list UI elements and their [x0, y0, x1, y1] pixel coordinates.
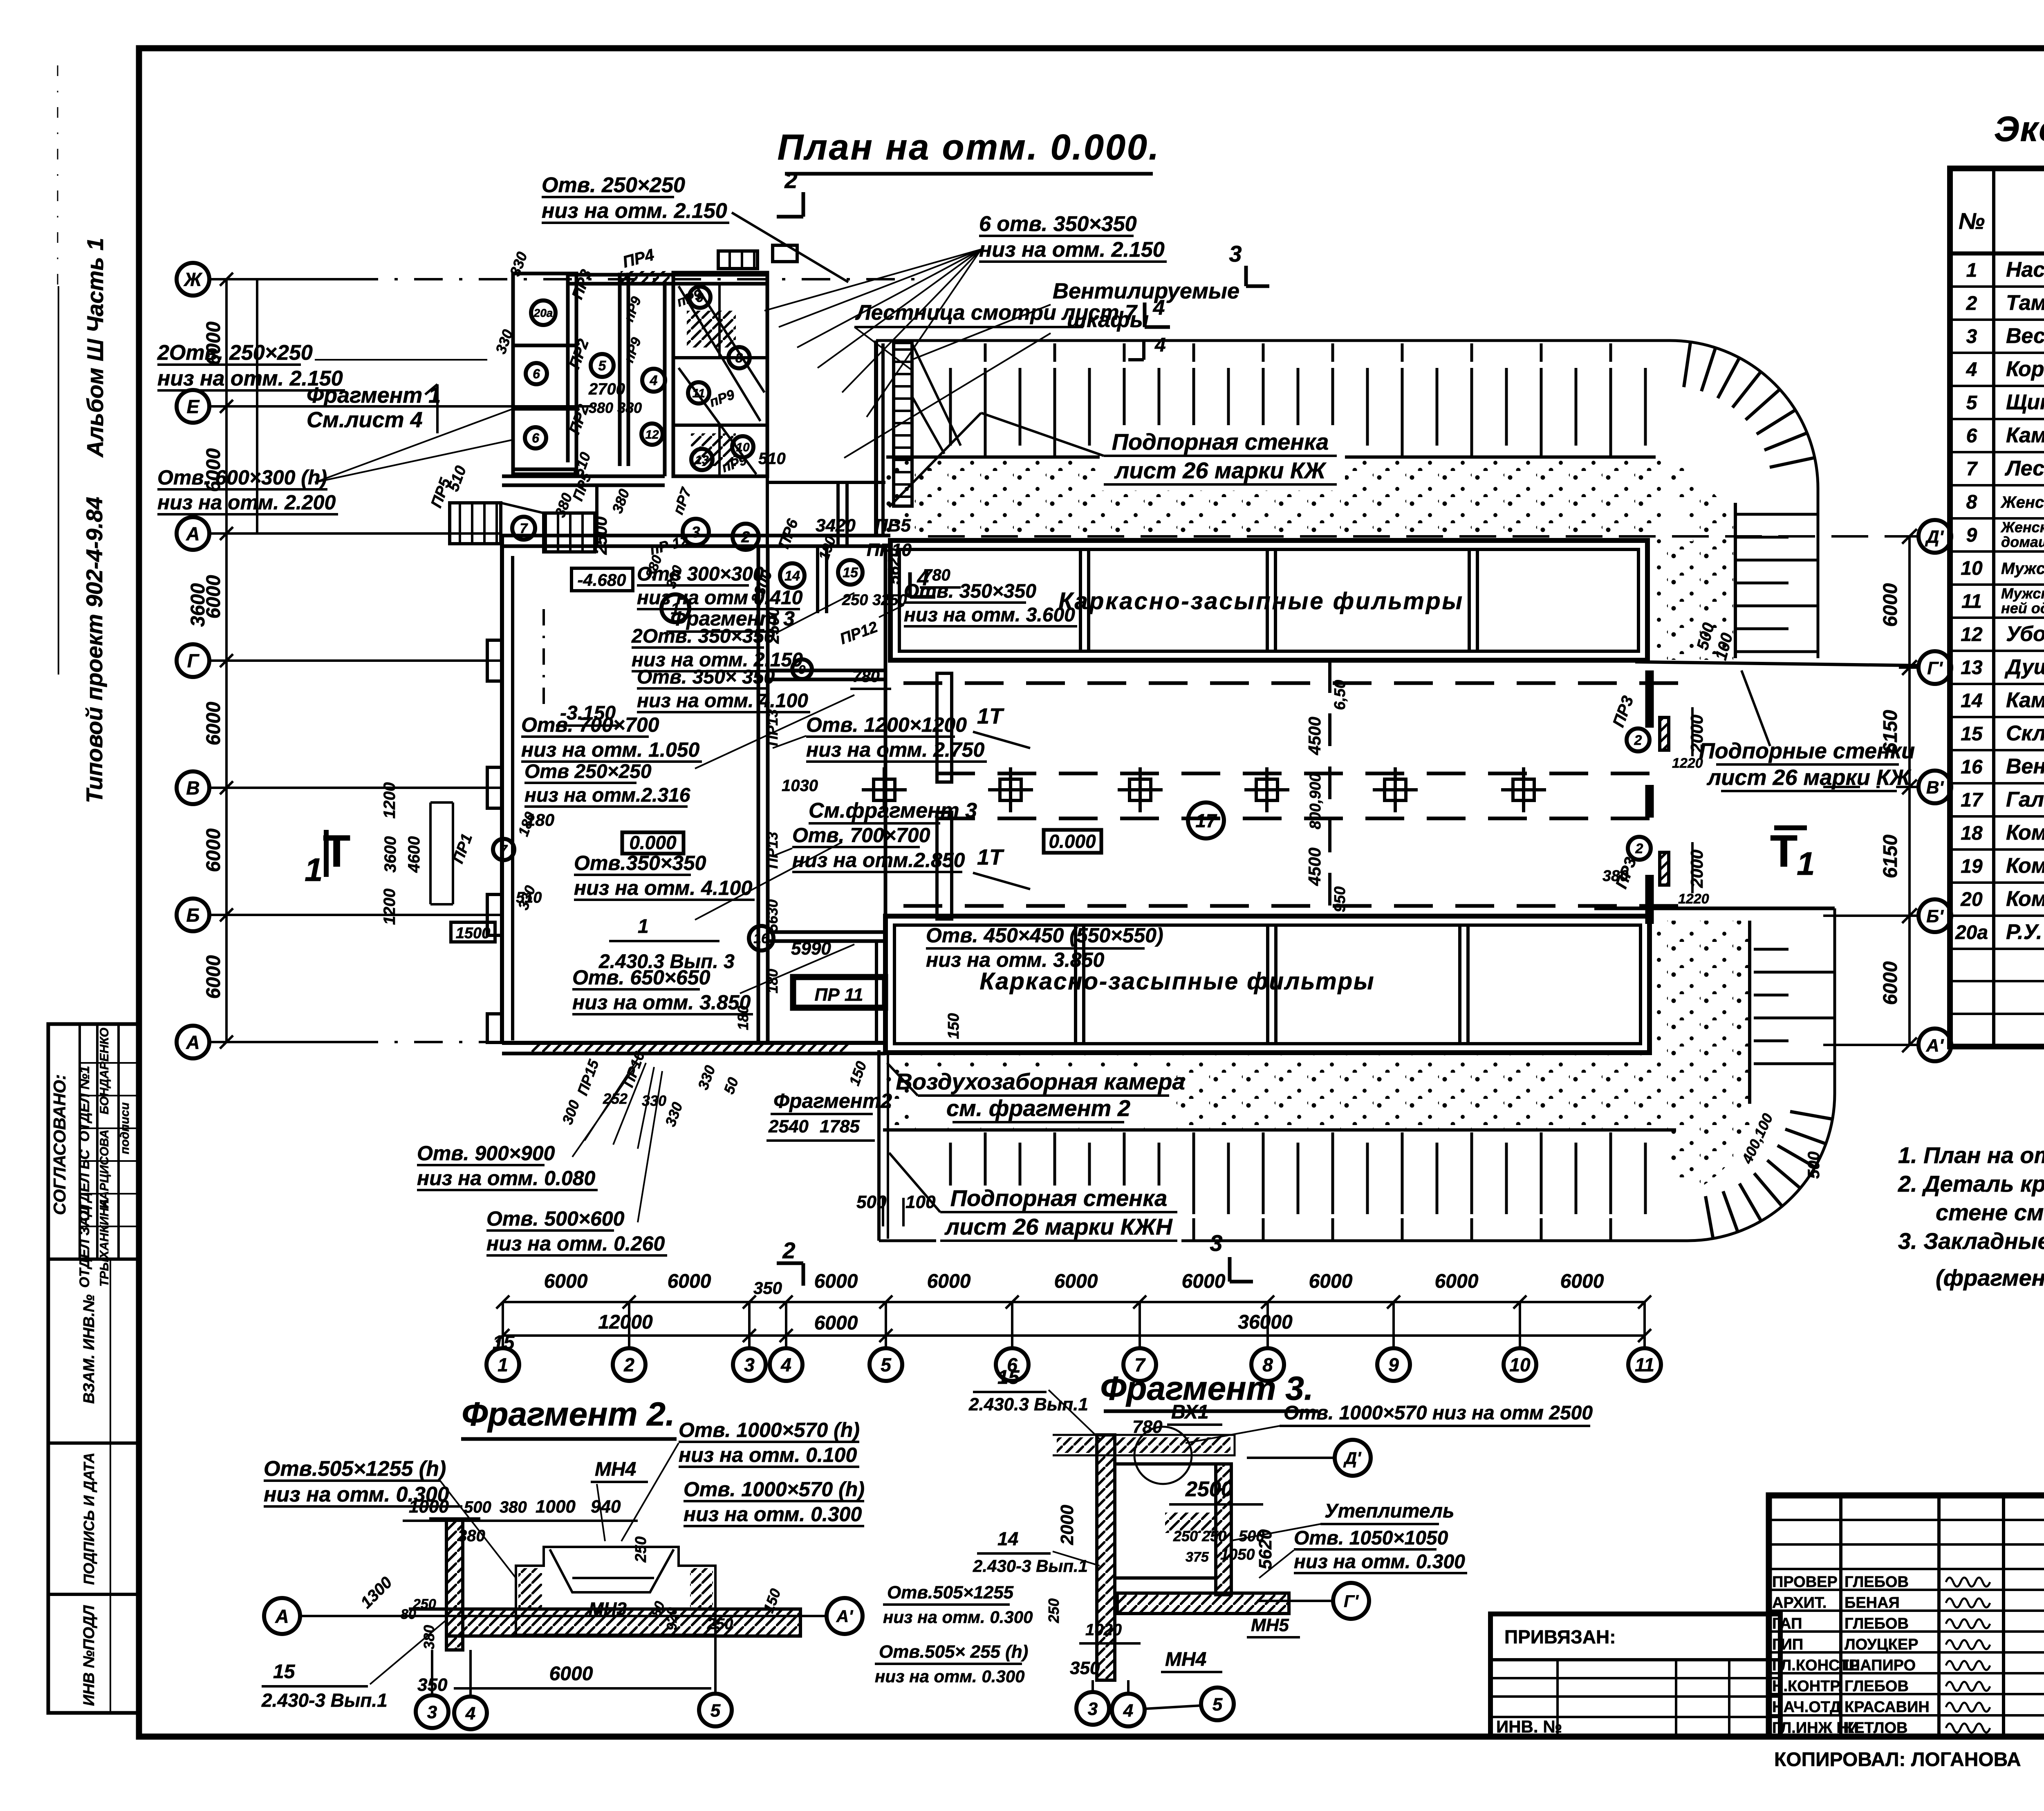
fragment 2 wall	[446, 1519, 463, 1650]
svg-text:780: 780	[852, 668, 880, 686]
svg-text:Воздухозаборная камера: Воздухозаборная камера	[896, 1069, 1185, 1094]
svg-text:низ на отм.2.316: низ на отм.2.316	[524, 784, 690, 806]
fragment 3 structure	[1097, 1435, 1115, 1680]
svg-text:Экспликация помещений.: Экспликация помещений.	[1994, 110, 2044, 149]
svg-text:15: 15	[493, 1332, 515, 1354]
svg-text:Комната дежурного: Комната дежурного	[2006, 854, 2044, 878]
svg-text:20а: 20а	[533, 307, 553, 319]
svg-text:6000: 6000	[814, 1271, 858, 1292]
label Воздухозаборная камера	[912, 1069, 1173, 1126]
привязан block	[1490, 1614, 1780, 1737]
building west wall	[500, 536, 504, 1043]
table row 10	[1950, 583, 2044, 586]
svg-text:2: 2	[782, 1237, 795, 1263]
svg-text:6150: 6150	[1880, 834, 1901, 878]
svg-text:2.430-3 Вып.1: 2.430-3 Вып.1	[261, 1690, 388, 1711]
svg-text:В': В'	[1926, 778, 1944, 798]
svg-text:940: 940	[591, 1497, 621, 1517]
top band right side ticks	[1735, 503, 1818, 658]
right dim chain	[1908, 536, 1911, 1045]
fragment 3 axis circles	[1335, 1440, 1371, 1476]
table row 8	[1950, 517, 2044, 520]
svg-text:15: 15	[1961, 723, 1983, 745]
table row 2	[1950, 318, 2044, 321]
svg-text:МН4: МН4	[595, 1459, 636, 1480]
title block left grid	[1839, 1495, 1842, 1737]
svg-text:7: 7	[1966, 458, 1978, 480]
svg-text:ПР13: ПР13	[764, 709, 781, 746]
svg-text:КРАСАВИН: КРАСАВИН	[1845, 1699, 1930, 1716]
svg-text:НАРЦИСОВА: НАРЦИСОВА	[98, 1130, 111, 1209]
svg-text:СОГЛАСОВАНО:: СОГЛАСОВАНО:	[50, 1074, 69, 1215]
svg-text:низ на отм. 0.260: низ на отм. 0.260	[486, 1232, 665, 1255]
bottom dim line 1	[503, 1301, 1645, 1303]
svg-text:БОНДАРЕНКО: БОНДАРЕНКО	[98, 1028, 111, 1114]
svg-text:низ на отм. 0.300: низ на отм. 0.300	[264, 1483, 449, 1506]
table row 4	[1950, 385, 2044, 387]
svg-text:Р.У.: Р.У.	[2006, 920, 2042, 944]
svg-text:ВХ1: ВХ1	[1171, 1401, 1209, 1423]
svg-text:подписи: подписи	[118, 1103, 132, 1154]
svg-text:2: 2	[1966, 293, 1977, 314]
svg-text:2000: 2000	[1687, 849, 1706, 888]
table row 13	[1950, 683, 2044, 685]
NW rooms block west rooms (20a,6,6)	[513, 273, 576, 474]
svg-text:5: 5	[1213, 1694, 1223, 1715]
svg-text:Мужской гардероб уличной и дом: Мужской гардероб уличной и домаш-	[2001, 585, 2044, 602]
svg-text:Отв. 350× 350: Отв. 350× 350	[637, 666, 775, 688]
svg-text:Отв. 650×650: Отв. 650×650	[572, 966, 710, 989]
svg-text:1785: 1785	[820, 1116, 860, 1136]
bottom dim line 2	[503, 1334, 1645, 1337]
svg-text:лист 26 марки КЖ: лист 26 марки КЖ	[1706, 765, 1912, 790]
section mark 3 top	[1244, 266, 1248, 286]
svg-text:Отв. 600×300 (h): Отв. 600×300 (h)	[157, 466, 327, 489]
svg-text:Утеплитель: Утеплитель	[1325, 1500, 1454, 1522]
top retaining wall outline	[876, 341, 1818, 658]
svg-text:1Т: 1Т	[977, 845, 1004, 870]
svg-text:9: 9	[1388, 1354, 1399, 1376]
svg-text:Фрагмент 2.: Фрагмент 2.	[462, 1396, 675, 1433]
room mark 17	[1188, 802, 1224, 838]
svg-text:2: 2	[784, 167, 797, 193]
section 4 mark near шкафы	[1142, 339, 1145, 360]
svg-text:Отв. 1000×570 (h): Отв. 1000×570 (h)	[679, 1419, 860, 1441]
svg-text:3: 3	[1088, 1699, 1098, 1719]
svg-text:стене смотри на листе 4.: стене смотри на листе 4.	[1936, 1199, 2044, 1225]
svg-text:20а: 20а	[1955, 922, 1988, 944]
svg-text:780: 780	[1132, 1417, 1163, 1437]
svg-text:В: В	[186, 778, 199, 799]
section mark 4 (top)	[1143, 303, 1147, 327]
svg-text:13: 13	[695, 453, 709, 467]
svg-text:Е: Е	[187, 396, 200, 417]
svg-text:920: 920	[664, 1607, 680, 1631]
svg-text:12: 12	[645, 428, 659, 442]
svg-text:ПВ5: ПВ5	[875, 516, 911, 536]
table row 5	[1950, 418, 2044, 420]
svg-text:2: 2	[1635, 841, 1643, 856]
svg-text:Отв. 1000×570 (h): Отв. 1000×570 (h)	[684, 1478, 865, 1501]
svg-text:Отв. 900×900: Отв. 900×900	[417, 1142, 555, 1165]
svg-text:Отв. 500×600: Отв. 500×600	[486, 1207, 625, 1230]
table row 14	[1950, 716, 2044, 718]
svg-text:низ на отм 0.410: низ на отм 0.410	[637, 587, 803, 609]
svg-text:6000: 6000	[203, 955, 224, 999]
svg-text:6: 6	[533, 367, 540, 381]
svg-text:3: 3	[427, 1702, 437, 1722]
svg-text:ГЛЕБОВ: ГЛЕБОВ	[1845, 1678, 1909, 1695]
svg-text:ГЛЕБОВ: ГЛЕБОВ	[1845, 1615, 1909, 1632]
svg-text:Г: Г	[187, 650, 199, 672]
label Подпорная стенка КЖН	[936, 1186, 1181, 1245]
svg-text:350: 350	[753, 1278, 782, 1298]
svg-text:3600: 3600	[381, 836, 399, 873]
svg-text:низ на отм.2.850: низ на отм.2.850	[792, 849, 965, 872]
svg-text:домашней одежды: домашней одежды	[2001, 533, 2044, 550]
svg-text:13: 13	[1961, 657, 1983, 679]
svg-text:1: 1	[1797, 845, 1815, 882]
svg-text:6000: 6000	[1054, 1271, 1098, 1292]
table row 6	[1950, 451, 2044, 453]
svg-text:3: 3	[1966, 326, 1977, 347]
left dim chain	[225, 279, 228, 1042]
svg-text:20: 20	[1960, 889, 1983, 910]
svg-text:375: 375	[1186, 1549, 1209, 1565]
svg-text:380: 380	[1602, 867, 1628, 885]
svg-text:АРХИТ.: АРХИТ.	[1772, 1594, 1827, 1612]
svg-text:350: 350	[1070, 1658, 1100, 1678]
svg-text:8: 8	[1966, 491, 1977, 513]
stair room 7	[544, 513, 595, 552]
svg-text:15: 15	[997, 1367, 1020, 1388]
svg-text:Отв. 1050×1050: Отв. 1050×1050	[1294, 1527, 1448, 1549]
svg-text:КОПИРОВАЛ: ЛОГАНОВА: КОПИРОВАЛ: ЛОГАНОВА	[1774, 1749, 2021, 1771]
svg-text:4: 4	[1123, 1701, 1133, 1721]
svg-text:Комната начальника цеха: Комната начальника цеха	[2006, 887, 2044, 911]
svg-text:Д': Д'	[1925, 527, 1944, 547]
table row 20	[1950, 914, 2044, 917]
svg-text:780: 780	[923, 566, 950, 584]
svg-text:250: 250	[412, 1596, 436, 1612]
svg-text:ИНВ. №: ИНВ. №	[1496, 1717, 1562, 1736]
svg-text:5: 5	[881, 1354, 892, 1376]
svg-text:14: 14	[784, 568, 800, 584]
svg-text:ней одежды.: ней одежды.	[2001, 600, 2044, 616]
svg-text:4500: 4500	[1305, 847, 1324, 886]
svg-text:6 отв. 350×350: 6 отв. 350×350	[979, 212, 1137, 236]
svg-text:0.000: 0.000	[1049, 831, 1096, 852]
svg-text:6: 6	[532, 431, 539, 446]
svg-text:6000: 6000	[1880, 961, 1901, 1005]
svg-text:Отв.505× 255 (h): Отв.505× 255 (h)	[879, 1642, 1028, 1662]
svg-text:низ на отм. 2.150: низ на отм. 2.150	[542, 199, 727, 223]
svg-text:2540: 2540	[768, 1116, 809, 1136]
svg-text:2000: 2000	[1057, 1505, 1077, 1545]
svg-text:Г': Г'	[1344, 1591, 1359, 1611]
svg-text:10: 10	[1961, 558, 1983, 579]
svg-text:А': А'	[1926, 1035, 1944, 1056]
svg-text:5: 5	[1966, 392, 1978, 414]
room 16 walls	[768, 930, 885, 934]
svg-text:План на отм. 0.000.: План на отм. 0.000.	[778, 127, 1161, 167]
svg-text:4: 4	[1966, 359, 1977, 381]
svg-text:Фрагмент 1: Фрагмент 1	[307, 383, 441, 408]
svg-text:6000: 6000	[1880, 583, 1901, 627]
room schedule table	[1950, 168, 2044, 1047]
svg-text:лист 26 марки КЖН: лист 26 марки КЖН	[944, 1214, 1173, 1239]
svg-text:3: 3	[744, 1354, 755, 1376]
svg-text:250: 250	[707, 1616, 733, 1633]
svg-text:8: 8	[735, 351, 743, 365]
right rooms block 9/8/11/12/13/10	[673, 273, 767, 476]
svg-text:2Отв. 350×350: 2Отв. 350×350	[631, 625, 775, 647]
svg-text:Уборная: Уборная	[2006, 622, 2044, 646]
svg-text:КЕТЛОВ: КЕТЛОВ	[1845, 1719, 1907, 1737]
building north wall (axis Д)	[502, 534, 890, 538]
svg-text:100: 100	[905, 1192, 936, 1212]
svg-text:см. фрагмент 2: см. фрагмент 2	[946, 1095, 1130, 1121]
svg-text:Б': Б'	[1926, 906, 1944, 926]
svg-text:11: 11	[692, 387, 705, 400]
svg-text:1220: 1220	[1672, 755, 1703, 771]
svg-text:6: 6	[1966, 425, 1977, 447]
svg-text:6000: 6000	[544, 1271, 588, 1292]
svg-text:16: 16	[1961, 756, 1983, 778]
table row 12	[1950, 650, 2044, 652]
bottom band outline	[879, 908, 1835, 1241]
svg-text:19: 19	[1961, 856, 1983, 877]
table row 19	[1950, 881, 2044, 884]
svg-text:14: 14	[997, 1528, 1018, 1549]
svg-text:низ на отм. 0.300: низ на отм. 0.300	[875, 1667, 1024, 1686]
svg-text:низ на отм. 2.750: низ на отм. 2.750	[806, 738, 984, 761]
title block outer	[1769, 1495, 2044, 1737]
svg-text:2: 2	[1634, 733, 1642, 748]
svg-text:800,900: 800,900	[1307, 773, 1324, 829]
svg-text:150: 150	[945, 1013, 962, 1039]
west wall pilasters	[487, 640, 502, 681]
rooms 14 15	[768, 669, 885, 672]
svg-text:МН5: МН5	[1251, 1615, 1289, 1635]
table row 20а	[1950, 948, 2044, 950]
svg-text:2: 2	[623, 1354, 634, 1376]
svg-text:Камеры трансформаторов: Камеры трансформаторов	[2006, 424, 2044, 447]
svg-text:БЕНАЯ: БЕНАЯ	[1845, 1594, 1900, 1612]
svg-text:6000: 6000	[1435, 1271, 1479, 1292]
svg-text:Отв. 450×450 (550×550): Отв. 450×450 (550×550)	[926, 924, 1163, 947]
svg-text:Отв. 1000×570 низ на отм 2500: Отв. 1000×570 низ на отм 2500	[1284, 1402, 1593, 1424]
table row 1	[1950, 285, 2044, 288]
svg-text:Женский гардероб специальной о: Женский гардероб специальной одежды	[2000, 493, 2044, 511]
svg-text:6000: 6000	[1309, 1271, 1353, 1292]
svg-text:4: 4	[465, 1703, 475, 1724]
gallery columns	[874, 779, 895, 800]
PR11 box	[793, 977, 885, 1008]
fragment 2 axis circles	[416, 1695, 448, 1728]
table row 9	[1950, 550, 2044, 553]
svg-text:Камера забора воздуха: Камера забора воздуха	[2006, 688, 2044, 712]
svg-text:5: 5	[598, 358, 607, 374]
table row 16	[1950, 782, 2044, 784]
svg-text:1. План на отм. -4.680 и -3.1: 1. План на отм. -4.680 и -3.150 см. на л…	[1898, 1142, 2044, 1168]
svg-text:1000: 1000	[536, 1497, 576, 1517]
svg-text:2. Деталь крепления утеплителя: 2. Деталь крепления утеплителя к кирпичн…	[1898, 1171, 2044, 1197]
svg-text:ОТДЕЛ №1: ОТДЕЛ №1	[77, 1066, 92, 1142]
top wall of block	[568, 273, 767, 277]
svg-text:5630: 5630	[764, 899, 781, 932]
svg-text:1Т: 1Т	[977, 704, 1004, 728]
svg-text:Типовой проект 902-4-9.84: Типовой проект 902-4-9.84	[81, 497, 107, 803]
svg-text:1200: 1200	[381, 782, 399, 819]
svg-text:11: 11	[1635, 1354, 1654, 1376]
svg-text:Вентилируемые: Вентилируемые	[1053, 279, 1239, 303]
0.000 mark pump room	[622, 832, 684, 854]
svg-text:1030: 1030	[782, 777, 818, 795]
svg-text:15: 15	[273, 1661, 296, 1683]
svg-text:Лестничная клетка: Лестничная клетка	[2004, 457, 2044, 480]
svg-text:6,50: 6,50	[1331, 680, 1349, 710]
top band hatch ticks	[920, 343, 1656, 459]
svg-text:9: 9	[1966, 524, 1977, 546]
building south wall	[502, 1041, 885, 1045]
svg-text:Отв. 700×700: Отв. 700×700	[521, 713, 659, 736]
svg-text:7: 7	[500, 843, 508, 857]
svg-text:низ на отм. 3.850: низ на отм. 3.850	[926, 948, 1104, 971]
0.000 level mark	[1044, 830, 1101, 853]
svg-text:ШАПИРО: ШАПИРО	[1845, 1657, 1916, 1674]
fragment 2 axis A-A	[302, 1615, 825, 1617]
fragment 2 trough	[516, 1547, 715, 1635]
svg-text:ГИП: ГИП	[1772, 1636, 1803, 1653]
svg-text:низ на отм. 2.150: низ на отм. 2.150	[979, 238, 1165, 262]
svg-text:низ на отм. 0.300: низ на отм. 0.300	[1294, 1551, 1465, 1573]
svg-text:250 250: 250 250	[1173, 1528, 1226, 1544]
svg-text:Подпорные стенки: Подпорные стенки	[1699, 739, 1915, 763]
svg-text:6000: 6000	[203, 702, 224, 745]
svg-text:6000: 6000	[549, 1663, 593, 1685]
table row 11	[1950, 616, 2044, 619]
svg-text:6000: 6000	[668, 1271, 711, 1292]
svg-text:ПР13: ПР13	[764, 832, 781, 869]
svg-text:2: 2	[741, 529, 750, 546]
svg-text:2700: 2700	[588, 380, 625, 398]
svg-text:Отв.350×350: Отв.350×350	[574, 852, 706, 874]
section mark 3 bottom	[1228, 1257, 1232, 1282]
svg-text:Насосное отделение: Насосное отделение	[2006, 258, 2044, 282]
svg-text:низ на отм. 2.200: низ на отм. 2.200	[157, 491, 336, 514]
svg-text:2Отв. 250×250: 2Отв. 250×250	[157, 341, 313, 365]
svg-text:ГАП: ГАП	[1772, 1615, 1802, 1632]
svg-text:4: 4	[650, 373, 658, 388]
svg-text:1020: 1020	[1085, 1621, 1122, 1639]
sidebar stamp table	[48, 1024, 139, 1713]
table row 7	[1950, 484, 2044, 486]
svg-text:низ на отм. 0.300: низ на отм. 0.300	[883, 1607, 1033, 1627]
fragment 2 slab	[446, 1609, 800, 1636]
svg-text:Душевая: Душевая	[2004, 655, 2044, 679]
svg-text:14: 14	[1961, 690, 1982, 712]
svg-text:Д': Д'	[1343, 1448, 1362, 1468]
svg-text:Лестница смотри лист 7: Лестница смотри лист 7	[855, 301, 1138, 325]
svg-text:3600: 3600	[187, 583, 209, 627]
svg-text:3. Закладные изделия марок МН: 3. Закладные изделия марок МН 4, МН5; ВЖ…	[1898, 1228, 2044, 1254]
svg-text:1500: 1500	[456, 925, 491, 942]
svg-text:ОТДЕЛ ЗАД: ОТДЕЛ ЗАД	[77, 1206, 92, 1288]
svg-text:низ на отм. 3.850: низ на отм. 3.850	[572, 991, 751, 1014]
svg-text:Г': Г'	[1927, 658, 1943, 678]
svg-text:0.000: 0.000	[629, 832, 677, 853]
svg-text:11: 11	[1961, 591, 1982, 612]
svg-text:17: 17	[1961, 789, 1983, 811]
svg-text:Каркасно-засыпные фильтры: Каркасно-засыпные фильтры	[1058, 588, 1464, 614]
svg-text:5: 5	[710, 1701, 721, 1721]
svg-text:ПР 11: ПР 11	[815, 985, 863, 1005]
svg-text:7: 7	[520, 521, 529, 536]
svg-text:ЛОУЦКЕР: ЛОУЦКЕР	[1845, 1636, 1918, 1653]
svg-text:ИНВ №ПОДЛ: ИНВ №ПОДЛ	[81, 1605, 98, 1706]
svg-text:Отв 250×250: Отв 250×250	[524, 761, 652, 782]
table row 3	[1950, 352, 2044, 354]
svg-text:1: 1	[305, 852, 323, 888]
bottom filter hall walls	[885, 916, 1650, 1053]
svg-text:Фрагмент2: Фрагмент2	[773, 1089, 892, 1112]
svg-text:-4.680: -4.680	[577, 570, 626, 589]
svg-text:2500: 2500	[1185, 1477, 1233, 1501]
label Подпорная стенка (top)	[1100, 425, 1345, 491]
svg-text:1200: 1200	[381, 889, 399, 925]
bottom band hatch ticks	[920, 1132, 1656, 1239]
svg-text:4: 4	[1154, 334, 1166, 356]
svg-text:Щитовая: Щитовая	[2006, 390, 2044, 414]
svg-text:ГЛЕБОВ: ГЛЕБОВ	[1845, 1573, 1909, 1591]
svg-text:Комната приема пищи: Комната приема пищи	[2006, 821, 2044, 845]
svg-text:Отв.505×1255 (h): Отв.505×1255 (h)	[264, 1457, 446, 1481]
svg-text:380: 380	[500, 1498, 527, 1516]
svg-text:Коридоры: Коридоры	[2006, 357, 2044, 381]
svg-text:Ж: Ж	[184, 269, 203, 290]
table row 18	[1950, 848, 2044, 851]
svg-text:4: 4	[780, 1354, 791, 1376]
gallery east end walls	[1645, 670, 1654, 728]
svg-text:4600: 4600	[405, 836, 423, 873]
svg-text:6000: 6000	[1182, 1271, 1226, 1292]
svg-text:низ на отм. 4.100: низ на отм. 4.100	[637, 690, 808, 712]
svg-text:А: А	[186, 523, 199, 545]
svg-text:6000: 6000	[927, 1271, 971, 1292]
svg-text:6000: 6000	[1560, 1271, 1604, 1292]
svg-text:Мужской гардероб специальной о: Мужской гардероб специальной одежды	[2001, 560, 2044, 578]
top band stipple	[886, 457, 1663, 541]
-4.680 level box	[572, 568, 633, 591]
svg-text:Отв.505×1255: Отв.505×1255	[887, 1582, 1014, 1603]
room 2/3 area walls	[766, 476, 769, 548]
left margin dash-dot line	[57, 65, 58, 286]
svg-text:250: 250	[1045, 1598, 1062, 1623]
vent shafts above block	[718, 251, 758, 269]
corridor walls	[566, 275, 570, 462]
svg-text:Венткамеры: Венткамеры	[2006, 755, 2044, 778]
svg-text:Каркасно-засыпные фильтры: Каркасно-засыпные фильтры	[979, 968, 1375, 995]
svg-text:Отв. 700×700: Отв. 700×700	[792, 824, 930, 847]
svg-text:500: 500	[1805, 1152, 1823, 1179]
svg-text:Тамбур: Тамбур	[2006, 291, 2044, 315]
svg-text:3420: 3420	[816, 516, 856, 536]
svg-text:4500: 4500	[1305, 717, 1324, 755]
svg-text:510: 510	[758, 450, 786, 468]
left axis circles	[177, 263, 209, 296]
vertical dashed axis in gallery	[1328, 660, 1331, 916]
